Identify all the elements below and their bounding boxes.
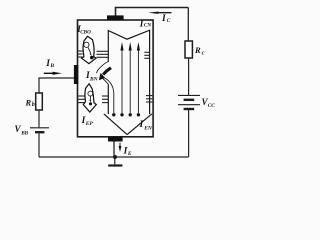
svg-text:I: I xyxy=(139,120,144,130)
emitter contact bar xyxy=(108,137,123,142)
funnel right slant xyxy=(127,114,152,135)
svg-text:C: C xyxy=(167,18,171,24)
svg-text:BB: BB xyxy=(20,130,28,136)
svg-text:I: I xyxy=(123,146,128,156)
svg-text:R: R xyxy=(194,45,201,55)
arrow IB (annotation, points right) xyxy=(44,72,53,74)
battery VCC xyxy=(178,95,200,109)
electron arrow 3 xyxy=(129,50,131,114)
IEP hole (circle) xyxy=(88,91,93,96)
resistor Rb xyxy=(36,93,43,110)
wire : VBB to bottom xyxy=(38,133,40,158)
svg-text:R: R xyxy=(25,98,32,108)
electron path 1 (curved, recombination to base) xyxy=(104,78,114,114)
IBN notch upper lip xyxy=(97,62,109,74)
arrow IC (annotation, points left) xyxy=(158,12,172,14)
wire : battery to bottom xyxy=(188,110,190,157)
collector contact bar xyxy=(107,15,124,20)
svg-text:B: B xyxy=(49,63,54,69)
svg-text:CBO: CBO xyxy=(80,30,91,36)
battery VBB xyxy=(30,128,49,132)
IEP ribbon arrow xyxy=(83,84,96,112)
collector junction hatch lines xyxy=(78,51,149,58)
svg-text:E: E xyxy=(127,151,132,157)
wire : top collector wire xyxy=(116,8,189,16)
node : emitter junction dot xyxy=(113,155,117,159)
electron dot 1 xyxy=(112,113,115,116)
svg-text:CN: CN xyxy=(144,23,151,29)
funnel left slant xyxy=(104,114,127,135)
svg-text:I: I xyxy=(161,14,166,24)
electron arrow 4 xyxy=(137,50,139,114)
resistor Rc xyxy=(185,41,192,58)
svg-text:CC: CC xyxy=(208,103,215,109)
svg-text:c: c xyxy=(202,50,205,56)
svg-text:b: b xyxy=(32,102,35,108)
svg-text:EN: EN xyxy=(143,126,153,132)
electron dot 2 xyxy=(120,113,123,116)
base contact bar xyxy=(74,65,78,84)
ground xyxy=(114,157,116,164)
svg-text:EP: EP xyxy=(85,121,94,127)
funnel left vertical lower xyxy=(107,84,109,114)
svg-text:BN: BN xyxy=(89,76,99,82)
emitter junction hatch lines xyxy=(78,96,152,103)
wire : left branch base wire xyxy=(39,78,74,93)
arrow IE (annotation, points down) xyxy=(119,143,121,147)
wire : bottom rail xyxy=(39,156,189,158)
electron dot 3 xyxy=(129,113,132,116)
wire : Rb to battery VBB xyxy=(38,110,40,127)
arrow IBN (black curved arrow) xyxy=(103,68,111,75)
ICBO ribbon arrow xyxy=(82,36,96,63)
ICBO link line + electron dot xyxy=(88,48,90,54)
electron arrow 2 xyxy=(121,50,123,114)
electron dot 4 xyxy=(137,113,140,116)
transistor body box xyxy=(78,20,154,137)
ICBO hole (circle) xyxy=(84,42,89,47)
IBN notch lower lip xyxy=(101,77,108,84)
wire : emitter lead xyxy=(113,142,115,158)
wire : right branch upper xyxy=(187,8,189,43)
IEP link line + electron dot xyxy=(89,96,91,100)
wire : Rc to battery xyxy=(188,58,190,95)
electron flow funnel outline (IEN channel) xyxy=(108,30,149,114)
